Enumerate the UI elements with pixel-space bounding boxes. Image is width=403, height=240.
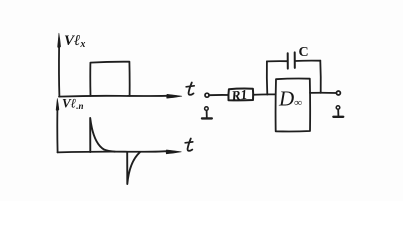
top plot vertical axis: [58, 47, 60, 97]
label t (bottom axis): [188, 139, 193, 151]
bottom plot vertical axis: [56, 110, 58, 152]
top plot horizontal axis arrowhead: [167, 94, 182, 98]
bottom plot horizontal axis: [58, 151, 167, 152]
label t (top axis): [189, 83, 194, 95]
svg-text:D∞: D∞: [278, 87, 302, 111]
capacitor C right plate: [294, 52, 296, 68]
svg-text:R1: R1: [230, 87, 248, 104]
wire block to output terminal: [310, 92, 336, 94]
output terminal: [336, 91, 340, 95]
bottom plot horizontal axis arrowhead: [166, 150, 181, 154]
top plot horizontal axis: [59, 95, 167, 98]
negative exponential spike: [127, 152, 140, 184]
input ground symbol: [202, 107, 212, 119]
svg-text:Vℓ.n: Vℓ.n: [62, 96, 84, 112]
svg-text:Vℓx: Vℓx: [64, 33, 85, 50]
positive exponential spike: [90, 118, 115, 152]
wire input to resistor: [209, 94, 228, 96]
input terminal: [205, 93, 209, 97]
feedback top wire right: [295, 60, 320, 62]
wire resistor to block: [253, 93, 275, 95]
svg-text:C: C: [299, 45, 309, 60]
feedback top wire left: [267, 60, 288, 62]
feedback left vertical wire: [266, 61, 268, 94]
top plot vertical axis arrowhead: [58, 33, 61, 48]
bottom plot vertical axis arrowhead: [56, 99, 59, 112]
feedback right vertical wire: [319, 61, 321, 93]
resistor R1: [228, 89, 253, 101]
output ground symbol: [333, 106, 343, 117]
op-amp block D: [276, 79, 311, 132]
pulse waveform: [90, 62, 129, 96]
capacitor C left plate: [287, 53, 289, 68]
